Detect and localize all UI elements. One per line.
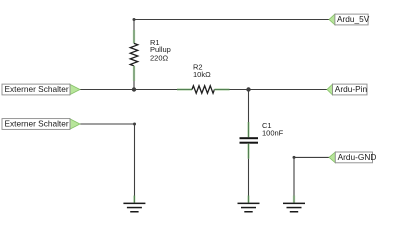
wire down to ground GND1: [134, 124, 136, 196]
wire second Externer Schalter horizontal: [80, 123, 135, 125]
resistor R2 pin right: [215, 88, 230, 91]
node bendpoint: [133, 123, 136, 126]
ground GND1 symbol: [123, 203, 145, 213]
wire junction down to C1: [248, 90, 250, 123]
resistor R2 pin left: [177, 88, 192, 91]
resistor R1 pin top: [133, 30, 136, 43]
resistor R1 zigzag: [130, 43, 138, 65]
ground GND3 pin: [293, 196, 296, 203]
resistor R1 pin bottom: [133, 66, 136, 81]
capacitor C1 plates: [240, 137, 259, 139]
node bendpoint top corner: [133, 18, 136, 21]
svg-text:Ardu_5V: Ardu_5V: [337, 14, 370, 24]
capacitor C1 pin bottom: [247, 144, 250, 159]
node bendpoint: [293, 156, 296, 159]
svg-text:Externer Schalter: Externer Schalter: [5, 84, 69, 94]
node junction C1/main wire: [246, 87, 250, 91]
wire Ardu-GND horizontal: [294, 156, 329, 158]
net label Ardu_5V: [329, 14, 370, 25]
resistor R2 zigzag: [192, 86, 214, 94]
svg-text:Externer Schalter: Externer Schalter: [5, 119, 69, 129]
ground GND2 symbol: [238, 203, 260, 213]
capacitor C1 pin top: [247, 122, 250, 137]
wire main horizontal left (Externer Schalter to R2): [80, 89, 177, 91]
wire top horizontal from R1 to Ardu_5V: [134, 19, 329, 21]
svg-text:100nF: 100nF: [262, 129, 284, 138]
net label Ardu-Pin: [327, 84, 367, 95]
svg-text:Ardu-Pin: Ardu-Pin: [335, 84, 368, 94]
net label Externer Schalter (lower): [2, 119, 80, 130]
wire main horizontal right (R2 to Ardu-Pin): [230, 89, 328, 91]
svg-text:10kΩ: 10kΩ: [193, 70, 211, 79]
wire down to ground GND3: [293, 157, 295, 195]
net label Externer Schalter (upper): [2, 84, 80, 95]
svg-text:Ardu-GND: Ardu-GND: [338, 152, 377, 162]
wire R1 bottom to junction: [133, 81, 135, 90]
node junction R1/main wire: [132, 87, 136, 91]
ground GND3 symbol: [283, 203, 305, 213]
wire C1 to ground: [248, 159, 250, 196]
wire R1 top vertical: [133, 20, 135, 31]
svg-text:220Ω: 220Ω: [150, 53, 169, 62]
ground GND2 pin: [247, 196, 250, 203]
net label Ardu-GND: [329, 152, 376, 163]
ground GND1 pin: [133, 196, 136, 203]
